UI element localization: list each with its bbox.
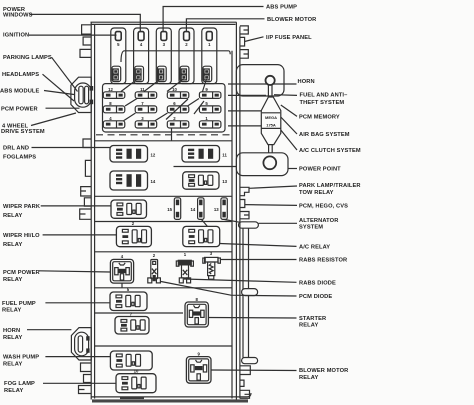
svg-text:2: 2 bbox=[185, 42, 188, 47]
relay 13 bbox=[183, 172, 219, 189]
mini fuse 8 bbox=[103, 101, 125, 113]
relay wiper park bbox=[111, 200, 147, 218]
svg-text:PARK LAMP/TRAILER: PARK LAMP/TRAILER bbox=[299, 183, 361, 189]
svg-text:DRIVE SYSTEM: DRIVE SYSTEM bbox=[1, 129, 45, 135]
svg-text:ABS PUMP: ABS PUMP bbox=[266, 5, 297, 11]
mini fuse compartment bbox=[103, 84, 226, 132]
connector C1 (ABS/PCM harness) bbox=[71, 77, 93, 112]
svg-text:DRL AND: DRL AND bbox=[3, 145, 29, 151]
left edge connector tabs bbox=[79, 25, 92, 394]
mini fuse 6 bbox=[167, 101, 189, 113]
cartridge fuse 13 bbox=[214, 198, 227, 220]
svg-text:15: 15 bbox=[167, 207, 172, 212]
relay socket 8 starter bbox=[185, 302, 208, 327]
svg-text:A/C CLUTCH SYSTEM: A/C CLUTCH SYSTEM bbox=[299, 148, 361, 154]
svg-text:MEGA: MEGA bbox=[265, 115, 277, 120]
svg-text:RELAY: RELAY bbox=[3, 213, 22, 219]
wire fuse2 to relay 11 bbox=[171, 129, 173, 141]
svg-text:RABS DIODE: RABS DIODE bbox=[299, 280, 336, 286]
svg-text:11: 11 bbox=[222, 153, 227, 158]
dashed compartment divider bbox=[96, 134, 230, 136]
horn terminal circle bbox=[266, 76, 275, 85]
svg-text:ABS MODULE: ABS MODULE bbox=[0, 88, 40, 94]
wire fuse13 to alternator bar bbox=[225, 220, 241, 223]
horn terminal housing bbox=[236, 65, 284, 96]
relay A/C bbox=[183, 226, 220, 246]
svg-text:A/C RELAY: A/C RELAY bbox=[299, 245, 330, 251]
fuse box outer case bbox=[91, 22, 252, 402]
svg-text:PARKING LAMPS: PARKING LAMPS bbox=[3, 55, 52, 61]
mini fuse 1 bbox=[199, 116, 221, 128]
svg-text:8: 8 bbox=[196, 297, 199, 302]
wire pcm hego cvs lead bbox=[245, 204, 297, 207]
svg-text:PCM DIODE: PCM DIODE bbox=[299, 294, 332, 300]
relay socket 9 blower motor bbox=[186, 357, 211, 384]
wire pcm power relay lead bbox=[39, 271, 110, 272]
wire horn relay lead bbox=[27, 329, 71, 331]
wire pcm diode lead bbox=[161, 282, 297, 297]
mini fuse 12 bbox=[103, 87, 125, 98]
svg-text:12: 12 bbox=[108, 87, 113, 92]
mega fuse stem bottom bbox=[268, 145, 270, 153]
svg-text:I/P FUSE PANEL: I/P FUSE PANEL bbox=[266, 35, 312, 41]
mini fuse 10 bbox=[167, 87, 189, 98]
svg-text:ALTERNATOR: ALTERNATOR bbox=[299, 218, 338, 224]
cartridge fuse 15 bbox=[167, 198, 180, 220]
svg-text:4: 4 bbox=[140, 42, 143, 47]
relay fuel pump bbox=[110, 292, 147, 311]
mounting stubs bbox=[228, 110, 261, 112]
relay 14 bbox=[110, 171, 148, 190]
wire 4 wheel drive lead bbox=[31, 113, 76, 126]
relay wash pump bbox=[110, 351, 152, 370]
svg-text:BLOWER MOTOR: BLOWER MOTOR bbox=[267, 17, 316, 23]
wire fog lamp relay lead bbox=[43, 382, 116, 384]
svg-text:14: 14 bbox=[151, 179, 156, 184]
mini fuse 5 bbox=[199, 101, 221, 113]
relay wiper hi/lo bbox=[116, 226, 151, 246]
mini fuse 7 bbox=[135, 101, 157, 113]
mini fuse 9 bbox=[199, 87, 221, 98]
wire pcm memory lead bbox=[281, 105, 297, 116]
grid connector wires bbox=[121, 79, 207, 121]
svg-text:THEFT SYSTEM: THEFT SYSTEM bbox=[300, 100, 345, 106]
wire power windows lead bbox=[30, 14, 141, 31]
svg-text:IGNITION: IGNITION bbox=[3, 32, 29, 38]
wire a/c clutch lead bbox=[281, 130, 297, 150]
relay socket 4 pcm power bbox=[110, 259, 133, 283]
maxi fuse slot 3 bbox=[156, 28, 171, 84]
wire abs pump lead bbox=[163, 7, 263, 32]
wire fuel pump relay lead bbox=[45, 302, 110, 304]
wire rabs resistor lead bbox=[220, 259, 296, 261]
svg-text:RELAY: RELAY bbox=[2, 308, 21, 314]
mini fuse 11 bbox=[135, 87, 157, 98]
svg-text:9: 9 bbox=[198, 351, 201, 356]
svg-text:10: 10 bbox=[134, 369, 139, 374]
maxi fuse slot 4 bbox=[134, 28, 149, 84]
svg-text:PCM MEMORY: PCM MEMORY bbox=[299, 114, 340, 120]
power point terminal circle bbox=[263, 156, 276, 169]
svg-text:RELAY: RELAY bbox=[3, 335, 22, 341]
wire rabs diode lead bbox=[184, 279, 297, 282]
wire socket 4 stem bbox=[121, 283, 123, 288]
svg-text:FUEL PUMP: FUEL PUMP bbox=[2, 301, 36, 307]
wire i/p fuse panel lead bbox=[245, 37, 264, 42]
wire fuel anti-theft stub bbox=[228, 94, 266, 96]
svg-text:STARTER: STARTER bbox=[299, 316, 326, 322]
relay 11 bbox=[182, 146, 220, 163]
relay fog lamp bbox=[116, 374, 156, 393]
svg-text:RABS RESISTOR: RABS RESISTOR bbox=[299, 258, 347, 264]
cartridge fuse 14 bbox=[191, 198, 204, 220]
wire fuel anti-theft lead bbox=[274, 94, 297, 97]
wire wash pump relay lead bbox=[45, 356, 110, 358]
svg-text:5: 5 bbox=[117, 42, 120, 47]
svg-text:HORN: HORN bbox=[298, 79, 315, 85]
mini fuse 3 bbox=[135, 116, 157, 128]
svg-text:14: 14 bbox=[191, 207, 196, 212]
svg-text:3: 3 bbox=[163, 42, 166, 47]
wire park lamp/trailer tow lead bbox=[249, 186, 297, 188]
svg-text:PCM POWER: PCM POWER bbox=[1, 106, 38, 112]
starter relay rail bbox=[242, 228, 258, 364]
wire wiper park lead bbox=[41, 205, 111, 207]
label right column bbox=[266, 5, 361, 382]
wire power point lead bbox=[288, 168, 297, 170]
mini fuse 2 bbox=[167, 116, 189, 128]
wire air bag lead bbox=[281, 117, 297, 134]
wire fuse14 to A/C relay bbox=[202, 220, 208, 227]
power point housing bbox=[236, 153, 288, 176]
svg-text:RELAY: RELAY bbox=[299, 322, 318, 328]
maxi fuse slot 1 bbox=[202, 28, 217, 84]
svg-text:BLOWER MOTOR: BLOWER MOTOR bbox=[299, 368, 348, 374]
maxi fuse slot 5 bbox=[111, 28, 126, 84]
mega fuse stem top bbox=[267, 85, 269, 97]
svg-text:1: 1 bbox=[208, 42, 211, 47]
svg-text:WASH PUMP: WASH PUMP bbox=[3, 355, 39, 361]
svg-text:WIPER PARK: WIPER PARK bbox=[3, 204, 41, 210]
wire a/c relay lead bbox=[220, 244, 297, 247]
svg-text:HORN: HORN bbox=[3, 328, 20, 334]
wire blower motor relay lead bbox=[211, 369, 297, 372]
svg-text:1: 1 bbox=[184, 252, 187, 257]
svg-text:WINDOWS: WINDOWS bbox=[3, 12, 33, 18]
wire starter relay lead bbox=[208, 317, 296, 320]
mini fuse 4 bbox=[103, 116, 125, 128]
svg-text:12: 12 bbox=[151, 153, 156, 158]
diode 2 (RABS diode) bbox=[148, 253, 161, 283]
svg-text:FUEL AND ANTI–: FUEL AND ANTI– bbox=[300, 93, 348, 99]
svg-text:POWER POINT: POWER POINT bbox=[299, 166, 341, 172]
svg-text:4: 4 bbox=[121, 254, 124, 259]
svg-text:FOGLAMPS: FOGLAMPS bbox=[3, 154, 36, 160]
maxi fuse slot 2 bbox=[179, 28, 194, 84]
svg-text:PCM, HEGO, CVS: PCM, HEGO, CVS bbox=[299, 203, 348, 209]
right edge connector tabs bbox=[240, 26, 250, 398]
wire alternator system lead bbox=[258, 222, 297, 224]
wire horn feed line bbox=[228, 83, 297, 85]
connector C2 (horn relay harness) bbox=[71, 328, 91, 360]
svg-text:RELAY: RELAY bbox=[3, 362, 22, 368]
wire abs module lead bbox=[44, 91, 74, 95]
svg-text:175A: 175A bbox=[266, 122, 276, 127]
svg-text:RELAY: RELAY bbox=[4, 388, 23, 394]
relay horn bbox=[115, 317, 149, 335]
svg-text:WIPER HI/LO: WIPER HI/LO bbox=[3, 233, 40, 239]
label left column bbox=[0, 7, 52, 394]
internal divider wires bbox=[95, 51, 236, 346]
resistor 3 (RABS resistor) bbox=[203, 251, 221, 279]
wire headlamps lead bbox=[43, 74, 75, 101]
wire drl/foglamps lead bbox=[32, 147, 111, 149]
wire blower motor lead bbox=[186, 19, 264, 32]
svg-text:13: 13 bbox=[214, 207, 219, 212]
mega fuse body MEGA 175A bbox=[261, 97, 281, 145]
svg-text:RELAY: RELAY bbox=[3, 242, 22, 248]
svg-text:AIR BAG SYSTEM: AIR BAG SYSTEM bbox=[299, 132, 350, 138]
alternator feed bar bbox=[239, 222, 259, 228]
wire wiper hi/lo lead bbox=[43, 234, 117, 236]
svg-text:RELAY: RELAY bbox=[3, 277, 22, 283]
svg-text:7: 7 bbox=[130, 311, 133, 316]
svg-text:RELAY: RELAY bbox=[299, 375, 318, 381]
wire pcm power lead bbox=[46, 107, 80, 109]
wire parking lamps lead bbox=[52, 57, 78, 91]
wire ignition lead bbox=[29, 34, 117, 36]
svg-text:13: 13 bbox=[222, 179, 227, 184]
svg-text:SYSTEM: SYSTEM bbox=[299, 224, 323, 230]
svg-text:PCM POWER: PCM POWER bbox=[3, 270, 40, 276]
relay 12 bbox=[110, 146, 148, 163]
diode 1 (PCM diode) bbox=[176, 252, 193, 283]
svg-text:2: 2 bbox=[153, 253, 156, 258]
svg-text:HEADLAMPS: HEADLAMPS bbox=[2, 72, 39, 78]
svg-text:TOW RELAY: TOW RELAY bbox=[299, 190, 334, 196]
svg-text:FOG LAMP: FOG LAMP bbox=[4, 381, 35, 387]
